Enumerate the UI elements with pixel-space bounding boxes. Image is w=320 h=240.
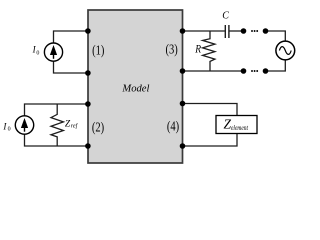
svg-text:C: C (222, 11, 229, 22)
svg-text:(2): (2) (92, 120, 104, 135)
svg-text:0: 0 (36, 51, 39, 57)
svg-text:0: 0 (8, 127, 11, 133)
svg-text:R: R (194, 42, 201, 56)
svg-text:(3): (3) (165, 43, 178, 58)
svg-text:(1): (1) (92, 42, 104, 57)
svg-text:ref: ref (71, 123, 79, 130)
svg-text:Model: Model (121, 84, 149, 95)
svg-text:(4): (4) (167, 120, 180, 135)
svg-text:element: element (231, 123, 249, 132)
